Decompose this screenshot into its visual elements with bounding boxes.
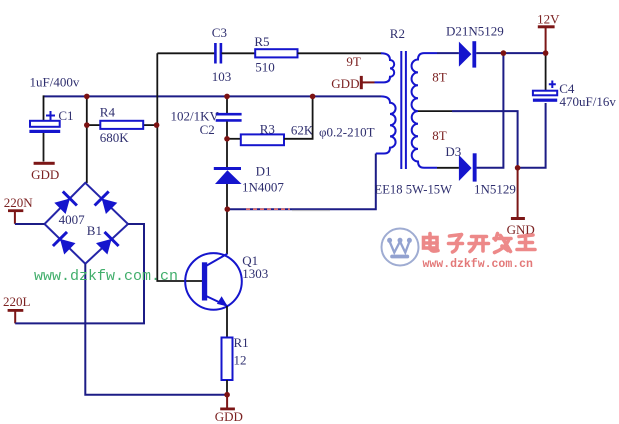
transistor Q1 <box>185 253 242 310</box>
transformer primary 9T winding <box>375 53 395 82</box>
wire D1 anode to collector node <box>226 184 228 209</box>
bridge diode bottom-right <box>96 232 119 255</box>
wire R4 left lead <box>87 124 101 126</box>
watermark chinese char fa <box>494 234 511 253</box>
svg-text:R3: R3 <box>260 121 275 136</box>
watermark chinese char wang <box>517 235 535 250</box>
svg-text:62K: 62K <box>291 123 314 138</box>
svg-text:470uF/16v: 470uF/16v <box>560 94 617 109</box>
wire secondary top to D2 <box>437 52 459 54</box>
wire center tap <box>418 110 452 112</box>
wire primary bottom return <box>228 154 376 210</box>
wire C1 bottom lead <box>43 133 45 162</box>
wire 220N to bridge left <box>15 223 45 225</box>
wire R1 bottom lead <box>226 380 228 395</box>
svg-text:R1: R1 <box>234 335 249 350</box>
svg-text:1uF/400v: 1uF/400v <box>30 75 80 90</box>
svg-text:4007: 4007 <box>59 212 86 227</box>
svg-text:D3: D3 <box>445 144 461 159</box>
svg-text:R2: R2 <box>390 26 405 41</box>
wire C4 top lead <box>545 53 547 91</box>
svg-text:B1: B1 <box>87 223 102 238</box>
svg-text:12V: 12V <box>537 11 560 26</box>
wire collector vertical <box>226 209 228 254</box>
watermark chinese char kai <box>469 237 489 252</box>
svg-text:www.dzkfw.com.cn: www.dzkfw.com.cn <box>34 268 178 285</box>
wire D2 node down to D3 cathode <box>477 53 504 168</box>
svg-text:R4: R4 <box>100 105 116 120</box>
node A rail-bridge <box>84 94 90 100</box>
watermark chinese char zi <box>449 235 463 253</box>
node K R1-GDD <box>224 392 230 398</box>
bridge diode top-left <box>54 191 77 214</box>
transformer core <box>401 51 406 169</box>
wire main DC rail <box>44 95 382 97</box>
wire C3 left <box>157 52 214 54</box>
resistor R4 <box>100 121 143 129</box>
svg-text:C3: C3 <box>212 25 227 40</box>
terminal 220N <box>4 195 34 224</box>
transformer primary main winding <box>376 96 396 153</box>
capacitor C4 <box>533 81 557 102</box>
wire R5 to 9T winding <box>298 52 382 54</box>
svg-text:D1: D1 <box>256 163 272 178</box>
svg-text:9T: 9T <box>346 54 361 69</box>
node D R4 left <box>84 122 90 128</box>
wire C1 top lead <box>43 95 45 121</box>
wire R3 left lead <box>227 138 241 140</box>
wire C3 to R5 <box>222 52 256 54</box>
wire feedback vertical to Q1 base <box>157 53 202 281</box>
svg-text:680K: 680K <box>100 130 130 145</box>
svg-text:8T: 8T <box>432 69 447 84</box>
svg-text:1N4007: 1N4007 <box>242 180 284 195</box>
watermark chinese char dian <box>424 234 439 252</box>
watermark logo circle W <box>382 229 419 266</box>
svg-text:220N: 220N <box>4 195 34 210</box>
node G collector-primary <box>225 206 231 212</box>
wire C2 bottom lead <box>226 122 228 140</box>
diode D3 <box>459 153 477 181</box>
wire D1 cathode lead <box>226 139 228 167</box>
terminal 220L <box>3 294 31 323</box>
wire R3 right lead up to rail <box>284 96 313 139</box>
svg-text:103: 103 <box>212 69 232 84</box>
diode D2 <box>459 41 476 67</box>
node C rail-R3 <box>310 94 316 100</box>
bridge diode bottom-left <box>53 232 76 255</box>
supply 12V <box>537 11 560 53</box>
svg-text:R5: R5 <box>254 34 269 49</box>
watermark dashes on wire <box>246 208 290 210</box>
resistor R5 <box>255 49 297 57</box>
node I 12V-C4 <box>543 50 549 56</box>
ground GDD under C1 <box>31 162 59 182</box>
svg-text:220L: 220L <box>3 294 31 309</box>
svg-text:C1: C1 <box>58 108 73 123</box>
diode D1 <box>214 167 242 184</box>
node F C2-R3-D1 <box>224 136 230 142</box>
svg-text:EE18 5W-15W: EE18 5W-15W <box>375 182 453 197</box>
node B rail-C2 <box>224 94 230 100</box>
wire R4 right lead <box>143 124 156 126</box>
svg-text:510: 510 <box>255 60 275 75</box>
wire emitter vertical <box>226 306 228 338</box>
capacitor C3 <box>215 43 221 64</box>
bridge diode top-right <box>95 191 118 214</box>
svg-text:www.dzkfw.com.cn: www.dzkfw.com.cn <box>423 258 534 271</box>
svg-text:C2: C2 <box>200 122 215 137</box>
transformer secondary winding with center tap <box>412 53 437 168</box>
svg-text:1N5129: 1N5129 <box>474 181 516 196</box>
resistor R1 <box>222 338 233 381</box>
wire C2 top lead <box>226 96 228 113</box>
node E R4 right <box>154 122 160 128</box>
svg-text:GDD: GDD <box>331 76 359 91</box>
ground GDD at 9T <box>331 76 374 91</box>
wire center tap node to C4 bottom <box>518 103 546 168</box>
svg-text:8T: 8T <box>432 128 447 143</box>
ground GND <box>507 168 535 237</box>
node J centertap-GND <box>515 165 521 171</box>
capacitor C2 <box>216 114 242 120</box>
wire 220L to bridge right <box>15 224 144 323</box>
node H D2 cathode <box>501 50 507 56</box>
wire D2 cathode to 12V node <box>476 52 545 54</box>
capacitor C1 <box>29 111 60 133</box>
resistor R3 <box>241 134 284 145</box>
wire branch rail to bridge top <box>86 96 88 183</box>
svg-text:1303: 1303 <box>242 266 268 281</box>
svg-text:GDD: GDD <box>31 167 59 182</box>
bridge rectifier B1 outline <box>45 183 129 264</box>
wire bridge bottom to ground rail <box>85 264 227 395</box>
ground GDD bottom <box>215 395 243 424</box>
svg-text:D21N5129: D21N5129 <box>446 24 504 39</box>
svg-text:φ0.2-210T: φ0.2-210T <box>319 124 375 139</box>
svg-text:GDD: GDD <box>215 409 243 424</box>
svg-text:12: 12 <box>234 353 247 368</box>
wire secondary bottom to D3 anode <box>437 167 459 169</box>
